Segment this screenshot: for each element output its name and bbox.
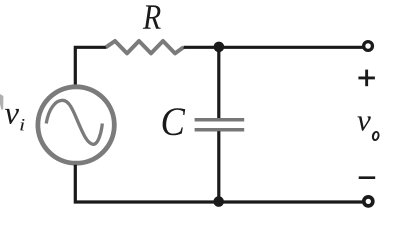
wire: source bottom lead and bottom rail to - terminal (75, 165, 363, 202)
terminal: v_o - output (364, 197, 373, 206)
wire: top rail (resistor to + terminal) (184, 46, 364, 49)
capacitor C top plate (195, 118, 245, 122)
label C (163, 108, 186, 135)
wire: capacitor top lead (217, 47, 220, 118)
label v_i (subscript i) (20, 119, 24, 130)
wire: top-left corner (source top lead to resistor) (75, 47, 106, 85)
minus sign (359, 176, 376, 179)
resistor R (106, 41, 184, 53)
label v_o (subscript o) (371, 130, 381, 142)
node: bottom junction dot (213, 196, 224, 207)
stray mark at left edge (0, 94, 3, 110)
capacitor C bottom plate (195, 128, 245, 132)
terminal: v_o + output (364, 42, 373, 51)
plus sign (358, 70, 375, 87)
label v_o (v) (357, 116, 370, 130)
source v_i circle (38, 87, 114, 163)
label v_i (v) (5, 109, 19, 124)
source v_i sine wave (46, 100, 102, 144)
label R (143, 5, 161, 28)
node: top junction dot (214, 42, 225, 53)
wire: capacitor bottom lead (217, 131, 220, 202)
